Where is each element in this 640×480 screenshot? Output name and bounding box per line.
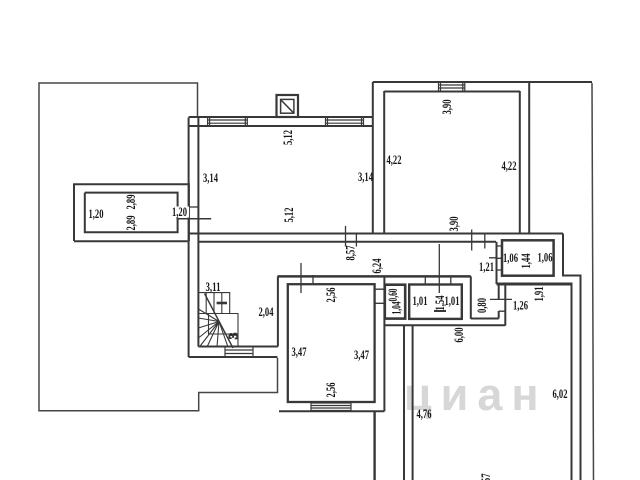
svg-text:1,06: 1,06 (503, 250, 518, 265)
svg-text:1,26: 1,26 (513, 298, 528, 313)
wall: bottom band lower line segments (74, 240, 188, 242)
svg-text:3,90: 3,90 (446, 217, 461, 232)
dimension tick T4 (438, 244, 440, 293)
svg-text:4,22: 4,22 (502, 158, 517, 173)
wall: WC left wall (470, 276, 472, 318)
wall: stair room left wall (double) (188, 242, 190, 357)
window W2 in top wall of 5,12 (326, 117, 364, 126)
dimension tick T8 (484, 233, 486, 249)
svg-text:2,56: 2,56 (323, 382, 338, 397)
svg-text:3,14: 3,14 (203, 170, 218, 185)
wall: big room top wall (497, 283, 573, 286)
svg-text:2,56: 2,56 (323, 287, 338, 302)
wall: WC bottom lines (471, 318, 499, 320)
wall: WC right outer line (504, 284, 506, 326)
wall: bottom band upper line (189, 233, 563, 235)
svg-text:1,91: 1,91 (531, 287, 546, 302)
wall: top wall of room 5,12 (two lines) (189, 117, 373, 126)
closet 0,60 box (385, 285, 405, 319)
svg-text:4,76: 4,76 (417, 406, 432, 421)
svg-text:1,21: 1,21 (479, 259, 494, 274)
svg-text:4,22: 4,22 (387, 152, 402, 167)
svg-text:1,06: 1,06 (538, 250, 553, 265)
dimension tick T7 (471, 230, 473, 251)
room 1,20 outer wall (74, 184, 189, 241)
stair direction line (205, 294, 234, 349)
svg-text:3,47: 3,47 (354, 347, 369, 362)
wall: big room left wall pair (403, 325, 405, 480)
svg-text:0,80: 0,80 (474, 298, 489, 313)
stair tread dash (217, 302, 227, 305)
door sill lines of room 1,20 (177, 207, 212, 219)
svg-text:3,47: 3,47 (292, 344, 307, 359)
dimension tick T5 (424, 276, 426, 284)
svg-text:2,57: 2,57 (478, 473, 493, 480)
svg-text:6,02: 6,02 (553, 386, 568, 401)
window W5 in bottom wall of 3,47 (311, 403, 351, 411)
wall: stair room bottom walls (198, 346, 278, 348)
window W1 in top wall of 5,12 (208, 82, 465, 411)
svg-text:2,89: 2,89 (123, 215, 138, 230)
svg-text:5,12: 5,12 (280, 130, 295, 145)
chimney symbol inner square (281, 99, 294, 113)
chimney symbol outer square (277, 95, 299, 117)
svg-text:1,01: 1,01 (413, 293, 428, 308)
wire: terrace outline left/top/bottom (thin boundary) (39, 83, 594, 480)
dimension tick T1 (301, 226, 512, 311)
staircase (198, 293, 240, 348)
chimney symbol diagonal (281, 100, 294, 113)
wall: right step down from band (563, 234, 581, 480)
closet door ticks (489, 246, 502, 270)
dash under 1,54 (434, 310, 446, 312)
wall: lower-left vertical wall below 3,47 room (373, 411, 375, 480)
svg-text:3,11: 3,11 (206, 279, 221, 294)
svg-text:1,44: 1,44 (518, 253, 533, 268)
wall: top wall of room 4,22 inner line (384, 91, 520, 93)
svg-text:8,57: 8,57 (343, 245, 358, 260)
svg-text:0,60: 0,60 (385, 289, 400, 302)
svg-text:6,00: 6,00 (451, 328, 466, 343)
svg-text:3,14: 3,14 (358, 169, 373, 184)
room 3,47 inner box (288, 284, 375, 402)
wall: left wall of room 5,12 (double) (74, 82, 592, 480)
svg-text:1,20: 1,20 (89, 206, 104, 221)
dimension tick T6 (450, 276, 452, 284)
wall: room 3,47 outer bottom line (279, 410, 384, 412)
wall: big room right inner line (571, 284, 573, 480)
wall: top wall of room 4,22 outer line (373, 81, 592, 83)
svg-text:6,24: 6,24 (369, 258, 384, 273)
wall: right wall pair between rooms 5,12 and 4,22 (372, 82, 374, 234)
wall: corridor south line (278, 275, 471, 278)
room 1,01 box (409, 285, 462, 319)
closet 1,06 box (502, 240, 554, 275)
WC door ticks (490, 299, 512, 311)
wall: right wall of room 4,22 (double) (519, 91, 521, 234)
svg-text:2,89: 2,89 (123, 194, 138, 209)
svg-text:1,01: 1,01 (445, 293, 460, 308)
closet 0,60 door ticks (375, 289, 385, 303)
wall 1,21 vertical (496, 242, 498, 284)
dimension tick T2 (312, 275, 314, 285)
svg-text:1,20: 1,20 (172, 204, 187, 219)
svg-text:3,90: 3,90 (439, 100, 454, 115)
door dimension tick 1,20 (177, 218, 212, 220)
window W3 in top wall of 4,22 (439, 82, 465, 91)
svg-text:1,04: 1,04 (389, 301, 404, 314)
label 1,20 right backing (171, 207, 190, 218)
wall: room 3,47 outer right line (383, 276, 385, 411)
dimension tick T3 (346, 226, 357, 247)
wall: room 3,47 outer left line (277, 276, 279, 346)
wall: corridor bottom outer line (384, 324, 505, 326)
wire: terrace right thin line (592, 83, 594, 480)
window W4 in stair room bottom wall (225, 347, 253, 358)
svg-text:3: 3 (226, 332, 241, 339)
svg-text:5,12: 5,12 (281, 208, 296, 223)
room 1,20 inner wall (85, 193, 178, 233)
wall: WC right wall inner with door gap (498, 284, 500, 319)
svg-text:2,04: 2,04 (259, 304, 274, 319)
